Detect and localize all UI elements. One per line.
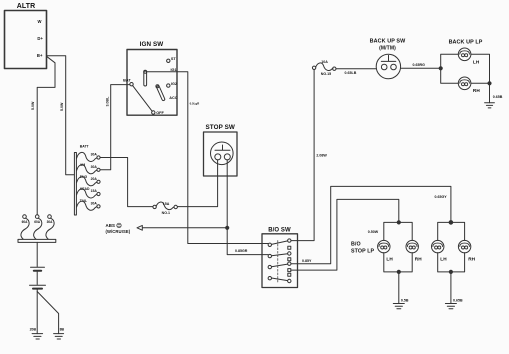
fuse 15A symbol [156,202,174,210]
IGN SW terminal IG1 capsule [144,71,147,86]
B/O SW pole2 blade [272,254,288,256]
BACK UP LP right bus [471,54,490,102]
B/O STOP LP lamp RH [406,240,418,252]
fusible link curl 1 [21,218,29,239]
svg-text:BATT: BATT [80,145,90,149]
ground battery left [32,334,43,339]
battery cell 1 plate - [34,270,41,272]
svg-text:0.65B: 0.65B [453,298,463,302]
B/O SW pole1 square [288,246,291,249]
svg-text:W: W [37,19,41,24]
svg-text:30A: 30A [47,220,54,224]
STOP SW box [204,132,238,176]
svg-text:B/O SW: B/O SW [268,227,291,233]
B/O SW pole4 square [288,273,291,276]
ground right stop pair [445,304,456,309]
wire 15A fuse to STOP SW left pin [177,160,217,207]
IGN SW box [127,50,177,116]
B/O SW pole1 left circle [268,243,271,246]
svg-text:3.0BL: 3.0BL [106,96,110,107]
wire BACK UP SW to lamps (0.65RG) [401,67,441,69]
fuse ENG terminal circle [97,180,100,183]
ABS circled glyph [117,223,121,227]
fuse TAIL terminal circle [97,205,100,208]
wire bar to battery [36,242,38,266]
svg-text:(W/CRUISE): (W/CRUISE) [106,229,131,234]
IGN SW lever BAT-OFF [133,86,153,112]
wire battery to ground left (20B) [36,290,38,334]
svg-text:60A: 60A [34,220,41,224]
battery cell 2 plate + [30,284,46,286]
wire BATT fuse to 15A fuse [100,158,153,207]
B/O STOP LP left pair top node [384,222,412,240]
B/O SW pole4 right circle [288,279,291,282]
wire B/O SW pole3 to right stop pair (0.85Y / 0.65GY) [291,186,451,263]
junction dot left pair bottom [397,270,400,273]
battery inter-cell wire [36,272,38,285]
wire B+ to fuse block bus (5.0W) [47,56,75,175]
svg-text:ALTR: ALTR [17,3,36,10]
STOP SW pin left circle [215,154,221,160]
B/O SW pole2 left circle [268,254,271,257]
svg-text:5.0W: 5.0W [60,102,64,111]
B/O SW pole3 square [288,269,291,272]
wire B/O SW pole3 square to left stop pair [291,199,399,270]
junction dot left pair top [397,221,400,224]
svg-text:30A: 30A [91,165,98,169]
fuse BATT symbol [77,152,97,161]
svg-text:15A: 15A [163,202,170,206]
B/O STOP LP left pair bottom node [384,253,412,304]
IGN SW ACC capsule [156,85,165,101]
svg-text:BAT: BAT [123,79,131,83]
fuse BATT terminal circle [97,156,100,159]
svg-text:IG1: IG1 [171,68,177,72]
junction dot backup right bus [488,82,491,85]
IGN SW ACC top circle [156,85,159,88]
svg-text:LH: LH [386,256,393,261]
alternator ALTR box [5,11,47,69]
svg-text:10A: 10A [321,60,328,64]
wire IG1 to B/O SW (0.5LgR) [147,72,269,244]
svg-text:IG2: IG2 [171,82,177,86]
fusible link circle 3 [48,215,52,219]
right stop pair lamp LH [432,240,444,252]
wire battery to ground right (8B) [37,292,58,334]
svg-text:20B: 20B [30,328,37,332]
svg-text:20A: 20A [91,177,98,181]
fuse HEAD symbol [77,189,97,198]
fusible link curl 3 [46,218,54,239]
wire B+ to fusible link (5.0W) [37,56,55,215]
fuse HEAD terminal circle [97,192,100,195]
fuse AM symbol [77,165,97,174]
fuse 15A right circle [174,205,177,208]
svg-text:LH: LH [440,256,447,261]
IGN SW OFF circle [152,111,155,114]
B/O SW pole3 right circle [288,262,291,265]
svg-text:30A: 30A [91,201,98,205]
svg-text:B+: B+ [37,53,43,58]
fuse ENG symbol [77,177,97,186]
svg-text:(M/TM): (M/TM) [379,45,396,51]
svg-text:15A: 15A [91,189,98,193]
battery cell 1 plate + [31,266,45,268]
svg-text:ABS: ABS [106,223,116,228]
wire AM fuse to IGN SW BAT (3.0BL) [100,85,130,170]
ground left stop pair [393,304,404,309]
svg-text:0.65GY: 0.65GY [435,195,448,199]
BACK UP LP left bus [441,54,459,83]
fuse TAIL symbol [77,201,97,210]
BACK UP LP lamp LH [458,48,471,61]
svg-text:RH: RH [468,256,475,261]
svg-text:ST: ST [171,57,177,61]
svg-text:RH: RH [415,256,422,261]
B/O SW pole4 blade [272,278,288,281]
svg-text:B/O: B/O [351,241,361,247]
BACK UP SW pin right circle [391,64,397,70]
fusible link bus bar [18,239,56,242]
B/O SW pole2 right circle [288,252,291,255]
ABS arrowhead [137,225,142,230]
svg-text:LH: LH [473,60,480,65]
svg-text:OFF: OFF [156,111,164,115]
B/O SW pole1 blade [272,241,288,245]
fusible link curl 2 [34,218,42,239]
junction dot right pair top [449,221,453,225]
wire B/O SW to 10A fuse (2.08W) [291,70,314,241]
ground battery right [54,334,64,339]
B/O SW box [262,234,298,288]
svg-text:IGN SW: IGN SW [140,41,164,48]
fuse 10A left circle [312,66,315,69]
junction dot right pair bottom [449,270,452,273]
svg-text:0.65RG: 0.65RG [413,63,426,67]
wire ABS arrow line [142,227,227,229]
fuse 15A left circle [153,205,156,208]
junction dot stop/ABS [226,226,229,229]
B/O SW pole3 left circle [268,265,271,268]
BACK UP SW plunger T [381,55,396,61]
IGN SW terminal BAT circle [130,83,133,86]
battery cell 2 plate - [33,288,42,290]
B/O SW linkage dashed [277,241,279,283]
B/O SW pole2 square [288,258,291,261]
svg-text:5.0W: 5.0W [31,101,35,110]
svg-text:NO.1: NO.1 [162,211,170,215]
right stop pair top node [438,222,465,240]
svg-text:0.65B: 0.65B [493,95,503,99]
svg-text:0.85GR: 0.85GR [235,249,248,253]
right stop pair bottom node [438,253,465,304]
svg-text:2.08W: 2.08W [316,154,327,158]
svg-text:BACK UP LP: BACK UP LP [449,40,483,46]
BACK UP SW body circle [376,54,400,78]
B/O STOP LP lamp LH [378,240,390,252]
B/O SW pole1 right circle [288,239,291,242]
svg-text:STOP LP: STOP LP [351,249,375,255]
fusible link circle 2 [35,215,39,219]
svg-text:30A: 30A [91,153,98,157]
svg-text:D+: D+ [37,36,43,41]
ground backup lamps [485,103,495,108]
BACK UP SW pin left circle [381,64,387,70]
fuse 10A right circle [333,67,336,70]
svg-text:BACK UP SW: BACK UP SW [370,39,406,45]
BACK UP LP lamp RH [458,77,471,90]
svg-text:STOP SW: STOP SW [205,124,235,131]
svg-text:RH: RH [473,88,480,93]
fuse block bus bar [74,153,76,216]
svg-text:0.50W: 0.50W [368,230,379,234]
B/O SW pole4 left circle [268,277,271,280]
fuse AM terminal circle [97,168,100,171]
STOP SW plunger T [215,145,230,150]
IGN SW terminal ST circle [167,59,170,62]
svg-text:ACC: ACC [169,96,177,100]
fusible link circle 1 [23,215,27,219]
IGN SW terminal IG2 circle [167,84,170,87]
svg-text:0.65LB: 0.65LB [345,71,357,75]
wire 10A fuse to BACK UP SW (0.65LB) [336,68,376,70]
junction dot backup feed [439,67,442,70]
svg-text:0.5B: 0.5B [401,298,409,302]
svg-text:NO.15: NO.15 [321,72,331,76]
STOP SW body circle [211,142,234,165]
svg-text:0.85Y: 0.85Y [302,259,312,263]
right stop pair lamp RH [458,240,470,252]
wire STOP SW right pin to B/O SW (0.85GR) [227,160,268,255]
B/O SW pole3 blade [272,264,288,267]
svg-text:0.5LgR: 0.5LgR [190,102,201,106]
svg-text:8B: 8B [60,328,65,332]
STOP SW pin right circle [224,154,230,160]
svg-text:60A: 60A [22,220,29,224]
fuse 10A symbol [316,63,333,71]
IGN SW IG1 top circle [144,70,147,73]
